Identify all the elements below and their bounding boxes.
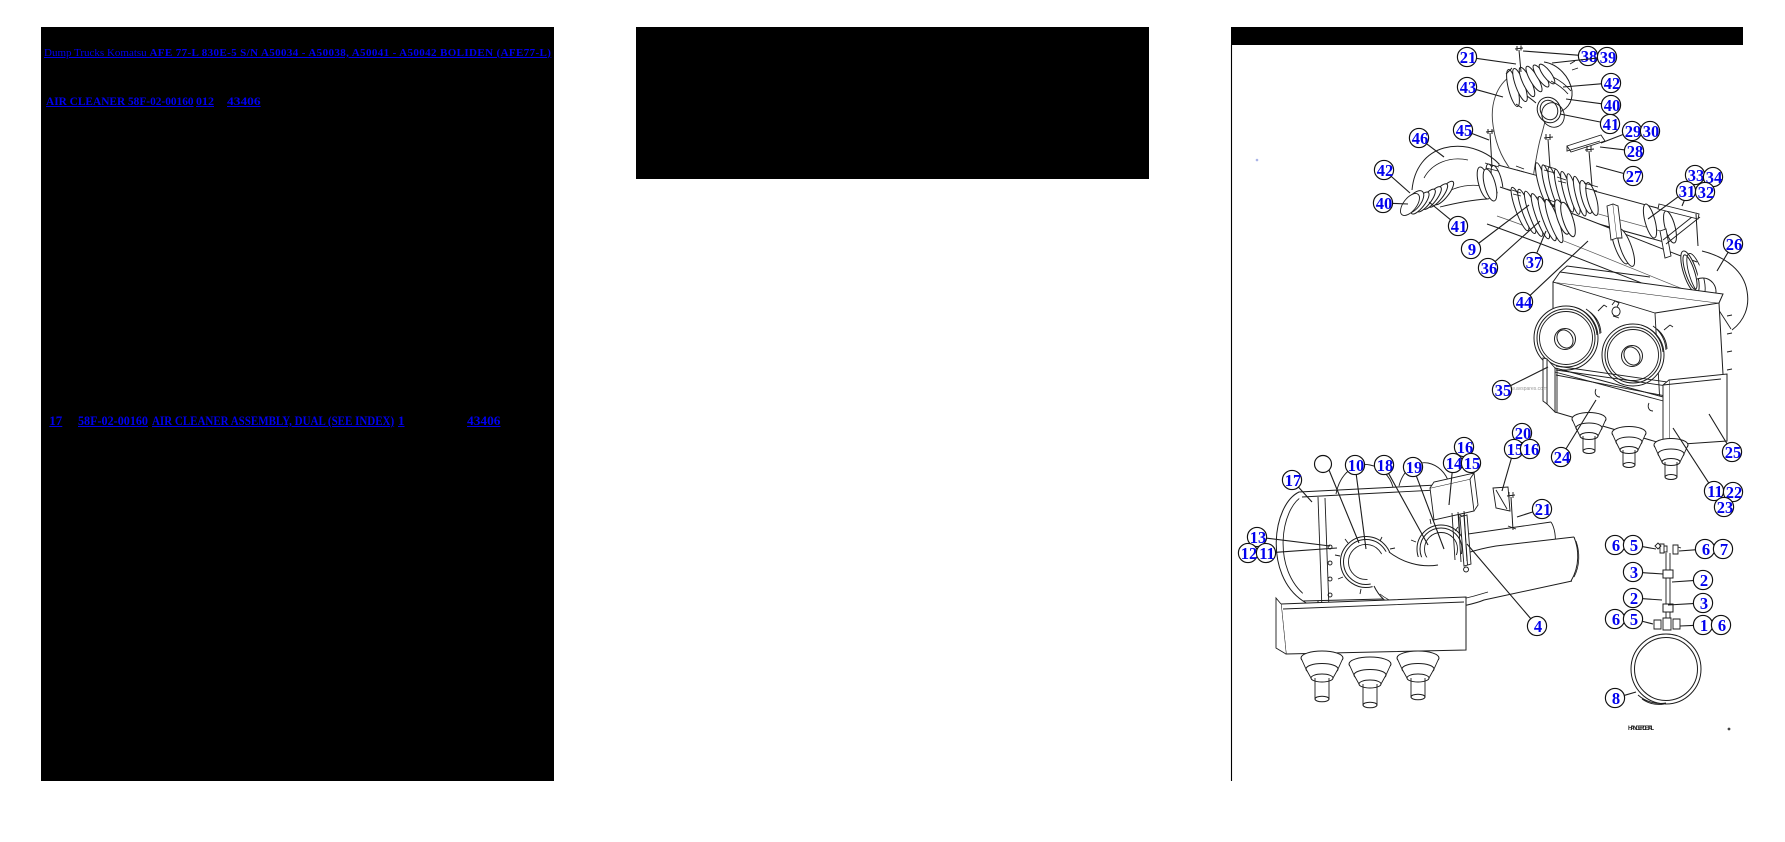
small hardware on box top	[1612, 301, 1620, 318]
svg-text:2: 2	[1630, 589, 1638, 608]
callout 15 left	[1461, 453, 1480, 473]
bracket A (31/32 plate)	[1607, 204, 1617, 240]
callout 25	[1709, 414, 1742, 462]
callout 21 top	[1457, 47, 1516, 67]
callout 41 right	[1560, 114, 1620, 134]
svg-text:24: 24	[1554, 448, 1571, 467]
dust hose from port 1 with sleeve end	[1374, 537, 1576, 612]
clamp hardware (1/5/6)	[1654, 618, 1680, 630]
callout 34	[1703, 167, 1722, 187]
svg-text:32: 32	[1698, 183, 1715, 202]
callout 32	[1695, 182, 1714, 202]
callout 7	[1713, 539, 1732, 559]
rear bellows (flex hose 38/39 style)	[1533, 162, 1589, 217]
callout 1	[1680, 615, 1713, 635]
filter drum 2	[1653, 326, 1667, 350]
callout 5 a	[1623, 535, 1656, 555]
rear pipe end clamp	[1641, 203, 1660, 239]
svg-text:9: 9	[1468, 240, 1476, 259]
svg-text:40: 40	[1376, 194, 1393, 213]
svg-text:41: 41	[1451, 217, 1468, 236]
middle black panel	[636, 27, 1149, 179]
callout 8	[1605, 688, 1636, 708]
link row 2	[46, 94, 194, 109]
svg-text:10: 10	[1348, 456, 1365, 475]
left black panel	[41, 27, 554, 781]
svg-text:31: 31	[1679, 182, 1696, 201]
callout 44	[1513, 241, 1588, 312]
callout 29	[1601, 121, 1642, 143]
lower funnels	[1301, 651, 1439, 708]
left elbow end flange	[1401, 187, 1428, 216]
small bracket 20/15/16	[1493, 487, 1510, 511]
callout 6 c	[1605, 609, 1624, 629]
svg-text:36: 36	[1481, 259, 1498, 278]
callout 26	[1717, 234, 1743, 271]
housing box	[1553, 282, 1724, 404]
svg-text:4: 4	[1534, 617, 1542, 636]
elbow 26	[1697, 251, 1748, 330]
mid bolt (on rear bellows)	[1548, 139, 1550, 168]
callout 4	[1467, 544, 1547, 636]
callout 19	[1403, 457, 1444, 549]
front long pipe body	[1486, 186, 1696, 298]
callout 3 b	[1668, 593, 1713, 613]
turnbuckle sleeves (2/3)	[1663, 570, 1673, 612]
callout 20	[1512, 423, 1531, 443]
callout 39	[1552, 47, 1617, 67]
callout 6 d	[1711, 615, 1730, 635]
svg-text:41: 41	[1603, 115, 1620, 134]
svg-text:40: 40	[1604, 96, 1621, 115]
angle bar 28	[1567, 135, 1605, 152]
filter drum 1	[1586, 309, 1601, 334]
svg-text:HANGER DETAIL: HANGER DETAIL	[1628, 726, 1654, 732]
bracket 14/15/16	[1430, 479, 1474, 520]
svg-text:12: 12	[1241, 544, 1258, 563]
svg-text:21: 21	[1460, 48, 1477, 67]
svg-text:30: 30	[1643, 122, 1660, 141]
svg-text:5: 5	[1630, 610, 1638, 629]
callout 42 left	[1374, 160, 1410, 193]
svg-text:15: 15	[1464, 454, 1481, 473]
callout 43	[1457, 77, 1503, 97]
callout 40 left	[1373, 193, 1408, 213]
callout 18	[1374, 455, 1428, 545]
rod	[1666, 553, 1670, 618]
rear pipe left clamp ring	[1484, 163, 1501, 195]
top hardware (items 5/6/7)	[1655, 543, 1667, 553]
svg-text:29: 29	[1625, 122, 1642, 141]
callout 5 b	[1623, 609, 1653, 629]
callout 6 a	[1605, 535, 1624, 555]
bolt 45	[1490, 133, 1492, 167]
callout 17	[1282, 470, 1312, 502]
svg-text:18: 18	[1377, 456, 1394, 475]
top elbow body (part 43)	[1513, 57, 1572, 113]
svg-text:2: 2	[1700, 571, 1708, 590]
tray 24	[1555, 368, 1667, 445]
top duct 43 ghost outline	[1492, 75, 1517, 177]
svg-text:17: 17	[1285, 471, 1302, 490]
callout 13	[1247, 527, 1330, 547]
front pipe open end ring	[1677, 249, 1703, 295]
left border rule of diagram column	[1231, 45, 1233, 781]
svg-text:25: 25	[1725, 443, 1742, 462]
svg-text:43: 43	[1460, 78, 1477, 97]
left elbow 46	[1412, 146, 1504, 207]
callout 42 right	[1563, 73, 1621, 93]
clamp band 42 on elbow	[1551, 77, 1571, 94]
callout 40 right	[1566, 95, 1621, 115]
svg-text:5: 5	[1630, 536, 1638, 555]
callout 11 left	[1256, 543, 1337, 563]
callout 41 left	[1429, 202, 1468, 236]
front pipe left junction ring	[1474, 166, 1493, 201]
svg-text:16: 16	[1523, 440, 1540, 459]
svg-text:42: 42	[1604, 74, 1621, 93]
callout 36	[1478, 221, 1540, 278]
svg-text:3: 3	[1630, 563, 1638, 582]
svg-text:42: 42	[1377, 161, 1394, 180]
hanger ring 8	[1631, 634, 1701, 704]
callout 3 a	[1623, 562, 1663, 582]
svg-text:7: 7	[1720, 540, 1728, 559]
callout 21 lower	[1517, 499, 1552, 519]
callout 45	[1453, 120, 1489, 140]
elbow opening ring 40/41	[1533, 93, 1565, 126]
clamp at bellows top	[1506, 68, 1522, 108]
callout 37	[1523, 231, 1546, 272]
svg-text:1: 1	[1700, 616, 1708, 635]
svg-text:37: 37	[1526, 253, 1543, 272]
callout 24	[1551, 400, 1596, 467]
callout 28	[1600, 141, 1644, 161]
callout 31	[1648, 181, 1696, 219]
bolts right face	[1727, 315, 1732, 370]
callout 33	[1682, 165, 1705, 206]
faint dot	[1256, 159, 1259, 162]
svg-text:23: 23	[1717, 498, 1734, 517]
left bellows rings (42L/40L)	[1408, 179, 1456, 217]
svg-text:8: 8	[1612, 689, 1620, 708]
svg-text:3: 3	[1700, 594, 1708, 613]
right column black title bar	[1231, 27, 1743, 45]
breadcrumb link row 1	[44, 47, 551, 59]
callout 6 b	[1679, 539, 1715, 559]
callout 16 left	[1454, 437, 1473, 457]
empty callout circle	[1315, 456, 1360, 544]
callout 14	[1443, 453, 1462, 505]
panel bolts left column	[1328, 545, 1332, 597]
bolt 27	[1589, 151, 1592, 186]
bracket support pillars	[1452, 511, 1467, 562]
callout 15 mid	[1502, 439, 1524, 491]
port 2	[1417, 525, 1465, 573]
svg-text:44: 44	[1516, 293, 1533, 312]
svg-text:11: 11	[1259, 544, 1275, 563]
svg-text:26: 26	[1726, 235, 1743, 254]
svg-text:14: 14	[1446, 454, 1463, 473]
svg-text:39: 39	[1600, 48, 1617, 67]
svg-text:28: 28	[1627, 142, 1644, 161]
callout 22	[1723, 482, 1742, 502]
callout 23	[1714, 497, 1733, 517]
callout 16 mid	[1520, 439, 1539, 459]
callout 30	[1640, 121, 1659, 141]
parts table row	[49, 413, 62, 429]
clamp band on hose (part 4 target)	[1460, 515, 1471, 566]
svg-text:46: 46	[1412, 129, 1429, 148]
box 25	[1669, 374, 1727, 445]
housing rounded body	[1276, 492, 1318, 610]
front pipe right clamp ring	[1608, 224, 1632, 265]
svg-text:19: 19	[1406, 458, 1423, 477]
svg-text:6: 6	[1612, 536, 1620, 555]
callout 2 a	[1623, 588, 1662, 608]
rear chamber domes above top edge	[1336, 465, 1393, 494]
latch bolts on filters	[1598, 305, 1673, 330]
svg-text:27: 27	[1626, 167, 1643, 186]
rear long pipe body	[1489, 164, 1680, 245]
port 1 (arcs, hose covers SE sector)	[1340, 536, 1391, 587]
svg-text:6: 6	[1612, 610, 1620, 629]
bolt 21	[1519, 50, 1521, 72]
funnels (dust cups)	[1572, 413, 1688, 480]
svg-text:45: 45	[1456, 121, 1473, 140]
svg-text:6: 6	[1718, 616, 1726, 635]
callout 38	[1523, 46, 1598, 66]
callout 11 right	[1673, 428, 1724, 501]
callout 9	[1461, 205, 1529, 259]
bolt 21b	[1511, 497, 1513, 530]
callout 35	[1492, 367, 1548, 400]
clamp hardware on rear bellows ends	[1516, 166, 1566, 183]
svg-text:6: 6	[1702, 540, 1710, 559]
lower tray	[1281, 597, 1466, 654]
callout 10	[1345, 455, 1366, 549]
inner connector tube (slides into hose)	[1468, 522, 1555, 561]
rear pipe right clamp ring	[1577, 179, 1594, 214]
callout 12	[1238, 543, 1257, 563]
bracket B (33/34 plate with arm)	[1660, 229, 1671, 258]
latch clips under filters	[1595, 389, 1653, 411]
svg-text:21: 21	[1535, 500, 1552, 519]
front bellows (parts 9/36)	[1508, 186, 1566, 244]
svg-text:35: 35	[1495, 381, 1512, 400]
callout 46	[1409, 128, 1444, 157]
mounting rail under filters	[1556, 366, 1723, 403]
front pipe mid clamp ring	[1552, 198, 1573, 235]
callout 27	[1596, 166, 1643, 186]
callout 2 b	[1672, 570, 1713, 590]
svg-text:38: 38	[1581, 47, 1598, 66]
top bellows rings (parts 38/39)	[1504, 62, 1557, 107]
